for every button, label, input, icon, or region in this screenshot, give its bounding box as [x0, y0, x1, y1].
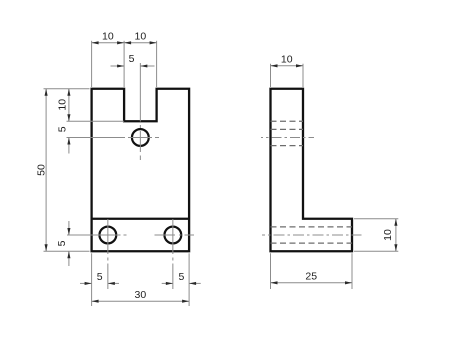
svg-text:5: 5	[97, 271, 103, 283]
svg-text:10: 10	[135, 31, 147, 43]
centerline vertical through hole H2	[107, 219, 109, 289]
svg-text:25: 25	[305, 271, 317, 283]
dimension 10 (slot depth) line	[68, 89, 70, 122]
dimension 30 (width) line	[92, 300, 190, 302]
dimension 5 (left hole offset) left tail	[80, 282, 92, 284]
dimension 10 (base height) line	[395, 219, 397, 252]
dimension 5 (slot to center) left tail	[111, 65, 125, 67]
base flange edge line	[92, 218, 190, 220]
extension line slot left top	[123, 41, 125, 87]
svg-text:5: 5	[129, 53, 135, 65]
centerline vertical through hole H3	[172, 219, 174, 289]
svg-text:5: 5	[56, 240, 68, 246]
extension line hole H2 center horizontal	[67, 234, 90, 236]
dimension 5 (hole to bottom) upper tail	[68, 221, 70, 235]
centerline hole H1 side view	[261, 137, 314, 139]
extension line flange bottom right	[354, 250, 398, 252]
hidden line holes H2 H3 bottom	[271, 242, 353, 244]
extension line left edge bottom	[91, 253, 93, 306]
svg-text:50: 50	[35, 164, 47, 176]
extension line slot bottom horizontal	[67, 120, 125, 122]
dimension 5 (right hole offset) right tail	[189, 282, 201, 284]
hidden line holes H2 H3 top	[271, 226, 353, 228]
extension line side view left top	[270, 64, 272, 87]
extension line left edge top	[91, 41, 93, 87]
svg-text:5: 5	[178, 271, 184, 283]
dimension 5 (left hole offset) right tail	[108, 282, 119, 284]
dimension 25 (base depth) line	[271, 282, 353, 284]
dimension 5 (right hole offset) left tail	[162, 282, 173, 284]
centerline horizontal through hole H3	[155, 234, 195, 236]
svg-text:10: 10	[102, 31, 114, 43]
centerline horizontal through hole H1	[122, 137, 159, 139]
side view L-shaped outline	[271, 89, 353, 252]
dimension 10 (slot width) line	[124, 42, 157, 44]
extension line bottom left horizontal	[44, 250, 90, 252]
hole H2 (bottom left, dia 5)	[99, 227, 116, 244]
svg-text:10: 10	[56, 99, 68, 111]
extension line right edge bottom	[188, 253, 190, 306]
dimension 5 (slot to hole) lower tail	[68, 138, 70, 154]
extension line side view bottom left	[270, 253, 272, 289]
svg-text:10: 10	[281, 54, 293, 66]
hidden line hole H1 top	[271, 128, 304, 130]
dimension 10 (thickness) line	[271, 65, 304, 67]
hole H3 (bottom right, dia 5)	[164, 227, 181, 244]
front view outline with top slot	[92, 89, 190, 252]
extension line side view right top	[302, 64, 304, 87]
centerline horizontal through hole H2	[90, 234, 127, 236]
centerline holes H2 H3 side view	[262, 234, 362, 236]
extension line slot right top	[156, 41, 158, 87]
svg-text:5: 5	[56, 126, 68, 132]
extension line side view bottom right	[351, 253, 353, 289]
dimension 5 (slot to center) right tail	[140, 65, 154, 67]
svg-text:30: 30	[135, 289, 147, 301]
extension line flange top right	[354, 218, 398, 220]
hidden line hole H1 bottom	[271, 145, 304, 147]
extension line hole H1 center horizontal	[67, 137, 123, 139]
dimension 10 (edge to slot) line	[92, 42, 125, 44]
hole H1 (upper, dia 5)	[132, 129, 149, 146]
centerline vertical through hole H1	[139, 63, 141, 160]
dimension 50 (height) line	[45, 89, 47, 252]
dimension 5 (hole to bottom) lower tail	[68, 251, 70, 266]
svg-text:10: 10	[382, 229, 394, 241]
hidden line slot bottom	[271, 120, 304, 122]
extension line top left horizontal	[44, 88, 90, 90]
